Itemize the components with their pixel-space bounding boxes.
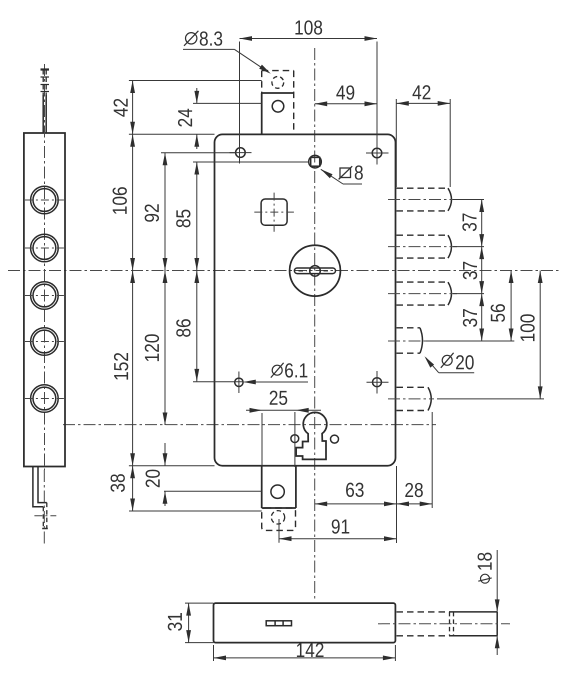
- bolt 4 D20: [388, 328, 514, 353]
- cam disc: [290, 245, 341, 296]
- bottom rod: [33, 467, 56, 547]
- dim 42 top right: [396, 85, 450, 187]
- hook guard protrusion: [262, 71, 294, 135]
- faceplate bolt hole 5: [25, 385, 64, 413]
- mounting hole top-left: [236, 148, 246, 158]
- dim 63 and 28: [315, 412, 433, 543]
- bottom view keyhole slot: [266, 621, 291, 626]
- left dim column x=132.6 : 42/106/152/38: [111, 81, 135, 512]
- bolt 5: [388, 387, 544, 410]
- top rod: [41, 70, 50, 134]
- main vertical centerline: [314, 48, 316, 600]
- escutcheon dashed hole: [271, 511, 284, 524]
- mid dim column x=165 : 92/120/20: [145, 153, 168, 506]
- dim 31: [168, 603, 214, 643]
- label D8.3: [183, 31, 272, 76]
- cam slot: [294, 268, 335, 274]
- dim 49: [315, 85, 377, 106]
- bolt 3: [388, 282, 484, 305]
- label D20: [423, 353, 475, 373]
- mounting hole top-right: [372, 148, 382, 158]
- cylinder screw hole right: [331, 435, 339, 443]
- escutcheon screw hole: [271, 485, 284, 498]
- main horizontal axis: [8, 270, 560, 272]
- escutcheon dashed box: [262, 508, 296, 530]
- faceplate: [24, 133, 65, 467]
- dim 100: [520, 271, 542, 399]
- mounting hole bottom-right: [373, 378, 382, 387]
- faceplate bolt hole 2: [25, 234, 64, 262]
- bolt 1: [388, 188, 484, 211]
- cylinder profile: [296, 412, 327, 459]
- square hole 8mm: [309, 155, 322, 168]
- dim 142: [214, 643, 396, 661]
- hook hole rest: [272, 101, 284, 113]
- hole D6.1: [235, 378, 243, 386]
- dim D18: [478, 550, 500, 655]
- label square 8: [319, 165, 362, 184]
- label D6.1: [243, 363, 308, 385]
- faceplate bolt hole 4: [25, 328, 64, 356]
- escutcheon protrusion: [262, 466, 296, 508]
- horizontal extension lines left: [129, 81, 309, 512]
- bottom view bolt: [378, 612, 510, 636]
- chain dims 37: [462, 200, 484, 342]
- dim 108: [240, 20, 378, 164]
- cylinder horizontal axis: [63, 424, 436, 426]
- bolt 2: [388, 235, 484, 258]
- inner dim column x=196.8 : 24/85/86: [176, 88, 199, 381]
- faceplate centerline: [44, 64, 46, 470]
- cylinder screw hole left: [291, 435, 299, 443]
- dim 56: [491, 271, 514, 342]
- dim 91: [279, 519, 397, 541]
- bottom view body: [214, 603, 396, 643]
- hook hole raised (dashed): [272, 77, 284, 89]
- faceplate bolt hole 3: [25, 282, 64, 310]
- faceplate bolt hole 1: [25, 186, 64, 214]
- square follower: [261, 199, 287, 225]
- dim 25: [246, 391, 321, 467]
- lock body: [215, 134, 396, 465]
